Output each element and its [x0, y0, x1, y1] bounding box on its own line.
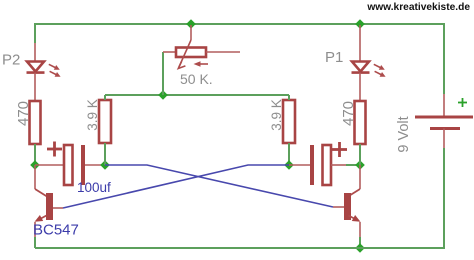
transistor Q2 BC547 right [359, 165, 361, 189]
svg-text:P2: P2 [2, 52, 20, 69]
wire right column green to battery [443, 23, 445, 94]
svg-text:9 Volt: 9 Volt [396, 116, 412, 152]
wire P1 pin red [359, 25, 361, 62]
wire junction to C1 [35, 164, 64, 166]
svg-text:3.9 K: 3.9 K [269, 99, 284, 131]
wire P2 to R1 [34, 73, 36, 101]
resistor R2 470 right [355, 101, 366, 144]
svg-text:470: 470 [15, 101, 32, 126]
battery B1 bottom plate [430, 127, 460, 130]
wire battery pin top red [443, 94, 445, 117]
wire 3.9K left top stub [104, 95, 106, 100]
LED P2 arrows [49, 64, 61, 77]
wire R2 bottom green [359, 144, 361, 165]
svg-text:P1: P1 [325, 49, 343, 66]
node junction pot left [158, 90, 168, 100]
resistor R4 3.9K right [283, 100, 295, 143]
wire battery bottom green [443, 148, 445, 249]
wire left column green top [34, 23, 36, 43]
wire bottom rail [35, 247, 445, 249]
wire pot left vertical [162, 52, 164, 95]
transistor Q1 BC547 left (mirrored) [34, 165, 36, 189]
potentiometer body 50K [163, 51, 176, 53]
wire 3.9K right top stub [288, 95, 290, 100]
wire top rail [35, 23, 445, 25]
wire C1 to node [85, 164, 103, 166]
capacitor C2 plus sign [332, 142, 347, 157]
capacitor C1 plus sign [47, 142, 62, 157]
node junction bottom rail [355, 243, 365, 253]
wire middle rail [105, 94, 289, 96]
node junction top wiper [186, 19, 196, 29]
wire Q2 base stub [333, 206, 344, 208]
wire pot right terminal [206, 51, 240, 53]
wire battery pin bottom red [443, 129, 445, 149]
wire C2 to right node [331, 164, 346, 166]
capacitor C2 plus plate [323, 145, 332, 185]
svg-text:3.9 K: 3.9 K [85, 99, 100, 131]
potentiometer wiper [190, 25, 192, 40]
svg-text:470: 470 [340, 101, 357, 126]
wire Q1 emitter to bottom rail [34, 222, 36, 237]
wire 3.9K right bottom stub [288, 143, 290, 165]
wire left column red to LED P2 [34, 43, 36, 62]
svg-text:100uf: 100uf [77, 180, 111, 195]
capacitor C1 plus plate [64, 145, 73, 185]
svg-text:www.kreativekiste.de: www.kreativekiste.de [366, 2, 470, 13]
resistor R3 3.9K left [99, 100, 111, 143]
wire cross B right node to Q1 base [63, 165, 289, 208]
wire P1 to R2 [359, 73, 361, 101]
LED P1 [352, 62, 370, 73]
resistor R1 470 left [30, 101, 41, 144]
wire 3.9K left bottom stub [104, 143, 106, 165]
node junction left 3.9K bottom [100, 160, 110, 170]
node junction right 3.9K bottom [284, 160, 294, 170]
node junction left column [30, 160, 40, 170]
potentiometer adjust arrow [197, 63, 208, 65]
node junction right column [355, 160, 365, 170]
battery B1 top plate [415, 116, 473, 119]
node junction top P1 [355, 19, 365, 29]
capacitor C1 minus plate [81, 145, 85, 185]
svg-text:BC547: BC547 [33, 222, 79, 239]
wire Q1 base stub [53, 207, 63, 209]
wire node to C2 [289, 164, 310, 166]
capacitor C2 minus plate [310, 145, 314, 185]
wire R1 bottom green [34, 144, 36, 165]
LED P2 [27, 62, 45, 73]
wire cross A left node to Q2 base [105, 165, 333, 207]
svg-text:50 K.: 50 K. [180, 71, 213, 87]
battery plus sign [458, 98, 467, 107]
LED P1 arrows [374, 64, 386, 77]
wire Q2 emitter to bottom rail [359, 222, 361, 237]
